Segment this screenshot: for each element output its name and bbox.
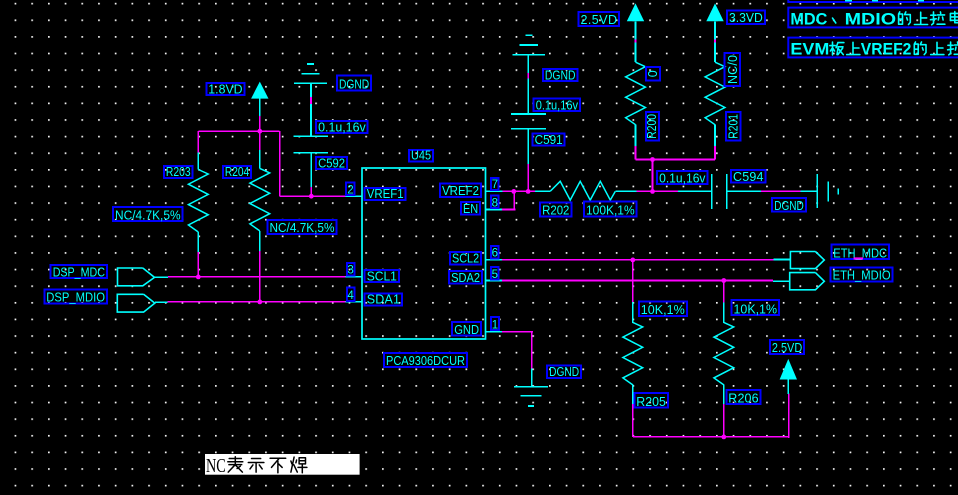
junction R202/R200R201: [650, 189, 655, 194]
svg-text:ETH_MDIO: ETH_MDIO: [833, 269, 891, 283]
pin number 3: [347, 263, 355, 277]
capacitor C591: [511, 114, 546, 164]
label R200: [645, 112, 659, 141]
wire 3.3VD-R201 stub: [714, 40, 716, 43]
junction 1.8VD/R204: [257, 129, 262, 134]
svg-text:DSP_MDC: DSP_MDC: [53, 265, 105, 279]
label DSP_MDIO: [44, 290, 107, 305]
junction VREF1/C592: [309, 194, 314, 199]
svg-text:6: 6: [492, 248, 498, 260]
svg-text:7: 7: [492, 179, 498, 191]
value NC/4.7K,5% of R204: [268, 220, 337, 235]
svg-text:3.3VD: 3.3VD: [729, 11, 763, 25]
power symbol 2.5VD (top): [627, 3, 644, 40]
value NC/0 of R201: [725, 53, 741, 86]
value 10K,1% of R205: [639, 301, 687, 317]
junction EN/VREF2: [511, 189, 516, 194]
pin number 7: [491, 178, 499, 191]
svg-text:SCL1: SCL1: [367, 269, 397, 283]
resistor R203: [188, 152, 208, 252]
pin name SDA1: [365, 293, 402, 307]
pin number 2: [346, 183, 355, 197]
svg-text:3: 3: [347, 265, 353, 277]
pin 4 lead (SDA1): [345, 301, 362, 303]
wire C592 bottom lead: [310, 187, 312, 196]
wire C594 to ground: [761, 190, 801, 192]
pin name EN: [461, 202, 480, 216]
note NC means do-not-populate (white box): [205, 454, 360, 477]
value 0.1u,16v of C594: [657, 171, 707, 185]
label DGND (right of C594): [772, 198, 806, 213]
pin 2 lead (VREF1): [345, 195, 362, 197]
label 2.5VD (bottom): [770, 340, 804, 355]
label ETH_MDC: [831, 244, 889, 260]
wire R203 top lead: [197, 131, 199, 153]
svg-text:5: 5: [492, 269, 498, 281]
power symbol 2.5VD (bottom): [780, 359, 797, 394]
wire GND net: [502, 332, 533, 369]
resistor R200: [626, 42, 646, 146]
resistor R206: [714, 303, 734, 405]
label R204: [223, 165, 251, 179]
label C591: [533, 133, 565, 147]
pin 5 lead (SDA2): [486, 280, 502, 282]
pin number 6: [491, 246, 499, 260]
svg-text:2.5VD: 2.5VD: [581, 13, 618, 27]
wire R205-R206 bottom: [633, 436, 790, 438]
junction R200R201 drop: [650, 157, 655, 162]
svg-text:R204: R204: [225, 165, 249, 179]
svg-text:SDA2: SDA2: [451, 271, 480, 285]
ground DGND (above C591): [512, 35, 545, 114]
note text MDC/MDIO pull-up (Chinese): [788, 8, 958, 29]
junction R204/DSP_MDIO: [257, 300, 262, 305]
wire ground-C591 stub: [527, 73, 529, 79]
note text EVM VREF2 pull-up (Chinese): [788, 38, 958, 59]
pin number 4: [347, 288, 355, 303]
wire R202 right: [637, 190, 679, 192]
svg-text:R201: R201: [726, 114, 740, 139]
pin 3 lead (SCL1): [345, 276, 362, 278]
label C592: [316, 156, 347, 170]
ground DGND (below U45): [514, 368, 548, 406]
op-amp U1 body (IC U45 PCA9306DCUR): [362, 168, 486, 339]
resistor R205: [623, 302, 643, 404]
junction R203/DSP_MDC: [196, 275, 201, 280]
svg-text:0: 0: [646, 70, 660, 77]
port ETH_MDC: [774, 252, 825, 269]
svg-text:C591: C591: [535, 133, 563, 147]
svg-text:MDC: MDC: [790, 10, 827, 28]
wire 1.8VD stem: [259, 116, 261, 131]
junction R205/ETH_MDC: [630, 258, 635, 263]
power symbol 1.8VD: [251, 82, 268, 116]
label 1.8VD: [206, 82, 244, 96]
value 0 of R200: [646, 67, 660, 81]
wire R200 bottom lead: [635, 146, 637, 159]
wire DSP_MDIO: [168, 301, 346, 303]
svg-text:VREF1: VREF1: [367, 187, 404, 201]
svg-text:8: 8: [492, 197, 498, 209]
pin 6 lead (SCL2): [486, 259, 502, 261]
svg-text:0.1u,16v: 0.1u,16v: [659, 171, 706, 185]
value 10K,1% of R206: [732, 300, 780, 316]
port DSP_MDC: [118, 268, 168, 286]
svg-text:VREF2: VREF2: [861, 40, 912, 58]
pin name VREF2: [440, 184, 481, 199]
svg-text:NC: NC: [206, 456, 226, 477]
pin name SCL1: [365, 269, 399, 283]
note box sliver (top edge): [788, 0, 958, 2]
power symbol 3.3VD: [706, 3, 723, 40]
svg-text:NC/0: NC/0: [726, 55, 740, 84]
wire ETH_MDC net: [502, 259, 774, 261]
wire drop to VREF2 net: [652, 160, 654, 192]
junction C591/VREF2: [526, 189, 531, 194]
svg-text:100K,1%: 100K,1%: [586, 204, 635, 218]
pin name SCL2: [450, 252, 481, 266]
label C594: [731, 170, 766, 184]
port DSP_MDIO: [117, 294, 167, 312]
wire R206 top lead: [723, 281, 725, 304]
svg-text:R205: R205: [636, 395, 666, 409]
svg-text:PCA9306DCUR: PCA9306DCUR: [386, 354, 465, 368]
wire R204 top lead: [259, 131, 261, 151]
label DGND (above C591): [543, 68, 578, 82]
svg-text:DGND: DGND: [549, 365, 579, 379]
svg-text:1.8VD: 1.8VD: [208, 82, 242, 96]
wire R205 bottom lead: [632, 404, 634, 437]
label ETH_MDIO: [831, 268, 893, 283]
svg-text:DGND: DGND: [774, 199, 804, 213]
pin number 1: [491, 317, 499, 331]
pin name SDA2: [449, 271, 482, 285]
wire ETH_MDIO net: [502, 280, 773, 282]
wire EN net: [502, 191, 516, 209]
pin number 5: [491, 267, 499, 281]
wire R203 bottom lead: [197, 252, 199, 277]
label DGND (above C592): [337, 76, 371, 92]
label 3.3VD: [727, 10, 765, 25]
pin 8 lead (EN): [486, 209, 502, 211]
svg-text:4: 4: [347, 290, 354, 302]
svg-text:DGND: DGND: [339, 78, 369, 92]
ground DGND (above C592): [294, 64, 327, 137]
svg-text:R206: R206: [728, 391, 758, 405]
wire R205 top lead: [632, 260, 634, 302]
label 2.5VD (top): [579, 12, 620, 27]
value 0.1u,16v of C591: [534, 98, 580, 112]
svg-text:SCL2: SCL2: [452, 252, 479, 266]
label DGND (below U45): [547, 365, 581, 379]
label R201: [726, 112, 741, 141]
wire ground-C592 stub: [310, 97, 312, 104]
svg-text:EVM: EVM: [790, 40, 829, 58]
label R202: [540, 203, 571, 218]
capacitor C592: [294, 136, 329, 187]
wire VREF2 net: [502, 190, 536, 192]
svg-text:EN: EN: [463, 202, 478, 216]
svg-text:NC/4.7K,5%: NC/4.7K,5%: [115, 208, 181, 222]
svg-text:R203: R203: [166, 165, 191, 179]
value 0.1u,16v of C592: [316, 120, 368, 134]
wire riser to 2.5VD: [788, 394, 790, 438]
wire 1.8VD to VREF1 vertical: [279, 131, 281, 196]
ground DGND (right of C594): [800, 174, 838, 208]
wire VREF1 net horizontal: [280, 195, 346, 197]
wire R200-R201 bottom: [636, 159, 716, 161]
svg-text:C592: C592: [318, 156, 345, 170]
svg-text:R200: R200: [645, 114, 659, 139]
svg-text:SDA1: SDA1: [367, 293, 400, 307]
resistor R204: [250, 150, 270, 251]
label DSP_MDC: [51, 265, 107, 279]
pin number 8: [491, 196, 499, 210]
wire 2.5VD-R200 stub: [635, 40, 637, 43]
svg-text:DSP_MDIO: DSP_MDIO: [46, 291, 105, 305]
svg-text:10K,1%: 10K,1%: [641, 303, 685, 317]
svg-text:MDIO: MDIO: [845, 10, 897, 28]
svg-text:2.5VD: 2.5VD: [772, 341, 802, 355]
svg-text:2: 2: [347, 184, 353, 196]
label R205: [634, 393, 668, 409]
svg-text:VREF2: VREF2: [442, 184, 479, 198]
wire R201 bottom lead: [714, 146, 716, 159]
value NC/4.7K,5% of R203: [113, 207, 183, 222]
label R206: [726, 390, 760, 406]
capacitor C594: [678, 174, 762, 209]
pin 1 lead (GND): [486, 331, 503, 333]
svg-text:1: 1: [492, 319, 498, 331]
wire R206 bottom lead: [723, 404, 725, 437]
resistor R202: [535, 181, 638, 200]
junction R206/bottom wire: [721, 435, 726, 440]
port ETH_MDIO: [773, 273, 825, 290]
svg-text:DGND: DGND: [545, 68, 576, 82]
wire R204 bottom lead: [259, 251, 261, 302]
svg-text:GND: GND: [454, 323, 479, 337]
pin name VREF1: [365, 187, 406, 201]
wire 1.8VD horizontal: [198, 130, 279, 132]
svg-text:NC/4.7K,5%: NC/4.7K,5%: [270, 221, 335, 235]
svg-text:R202: R202: [542, 204, 569, 218]
label PCA9306DCUR: [384, 353, 467, 368]
resistor R201: [705, 42, 725, 146]
label U45: [409, 149, 433, 163]
svg-text:0.1u,16v: 0.1u,16v: [318, 120, 366, 134]
svg-text:U45: U45: [411, 149, 431, 163]
svg-text:0.1u,16v: 0.1u,16v: [536, 98, 579, 112]
svg-text:C594: C594: [733, 170, 764, 184]
pin 7 lead (VREF2): [486, 190, 503, 192]
wire C591 bottom lead: [527, 164, 529, 192]
wire DSP_MDC: [168, 276, 345, 278]
junction R206/ETH_MDIO: [721, 278, 726, 283]
value 100K,1% of R202: [584, 201, 637, 217]
svg-text:10K,1%: 10K,1%: [734, 302, 778, 316]
pin name GND: [452, 322, 481, 337]
label R203: [164, 165, 193, 179]
